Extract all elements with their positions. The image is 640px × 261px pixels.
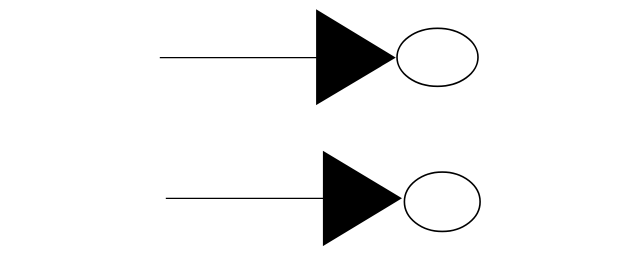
inverter 2 body (triangle) <box>323 151 402 246</box>
inverter 2 inversion bubble <box>404 172 480 231</box>
wire: input lead of inverter 2 <box>166 197 324 199</box>
wire: input lead of inverter 1 <box>160 57 317 59</box>
inverter 1 inversion bubble <box>397 28 478 86</box>
inverter 1 body (triangle) <box>316 9 396 105</box>
